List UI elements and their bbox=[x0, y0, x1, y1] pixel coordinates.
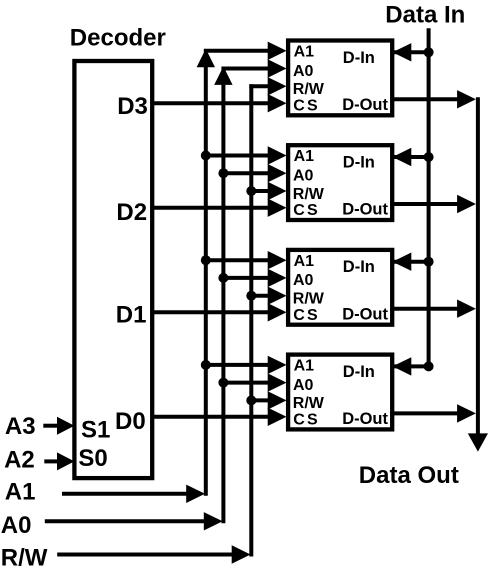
svg-text:R/W: R/W bbox=[293, 186, 325, 203]
svg-text:A1: A1 bbox=[294, 148, 315, 165]
svg-text:A2: A2 bbox=[4, 447, 35, 474]
svg-text:A1: A1 bbox=[294, 253, 315, 270]
svg-text:S0: S0 bbox=[78, 445, 107, 472]
svg-text:S1: S1 bbox=[81, 417, 110, 444]
svg-text:A0: A0 bbox=[293, 63, 314, 80]
svg-text:CS: CS bbox=[293, 307, 320, 324]
svg-text:A1: A1 bbox=[294, 358, 315, 375]
svg-text:D-Out: D-Out bbox=[342, 96, 388, 114]
svg-text:A1: A1 bbox=[294, 44, 315, 61]
svg-text:CS: CS bbox=[293, 98, 320, 115]
svg-text:D-In: D-In bbox=[343, 258, 375, 276]
svg-text:A3: A3 bbox=[5, 413, 36, 440]
svg-text:D-In: D-In bbox=[343, 49, 375, 67]
svg-text:A1: A1 bbox=[5, 478, 36, 505]
svg-text:A0: A0 bbox=[293, 377, 314, 394]
svg-text:D2: D2 bbox=[116, 199, 147, 226]
svg-text:A0: A0 bbox=[1, 512, 32, 539]
svg-text:A0: A0 bbox=[293, 168, 314, 185]
svg-text:D-Out: D-Out bbox=[342, 305, 388, 323]
svg-text:R/W: R/W bbox=[293, 395, 325, 412]
svg-text:D-In: D-In bbox=[343, 363, 375, 381]
svg-text:R/W: R/W bbox=[293, 81, 325, 98]
svg-text:D0: D0 bbox=[115, 408, 146, 435]
svg-text:D-In: D-In bbox=[343, 154, 375, 172]
svg-text:D3: D3 bbox=[117, 93, 148, 120]
svg-text:Decoder: Decoder bbox=[70, 24, 166, 51]
svg-text:CS: CS bbox=[293, 202, 320, 219]
svg-text:D1: D1 bbox=[116, 302, 147, 329]
svg-text:D-Out: D-Out bbox=[342, 410, 388, 428]
svg-text:Data In: Data In bbox=[385, 2, 465, 29]
svg-text:R/W: R/W bbox=[293, 291, 325, 308]
svg-text:R/W: R/W bbox=[1, 544, 48, 571]
svg-text:CS: CS bbox=[293, 412, 320, 429]
svg-text:A0: A0 bbox=[293, 272, 314, 289]
svg-text:D-Out: D-Out bbox=[342, 201, 388, 219]
svg-text:Data Out: Data Out bbox=[359, 462, 459, 489]
